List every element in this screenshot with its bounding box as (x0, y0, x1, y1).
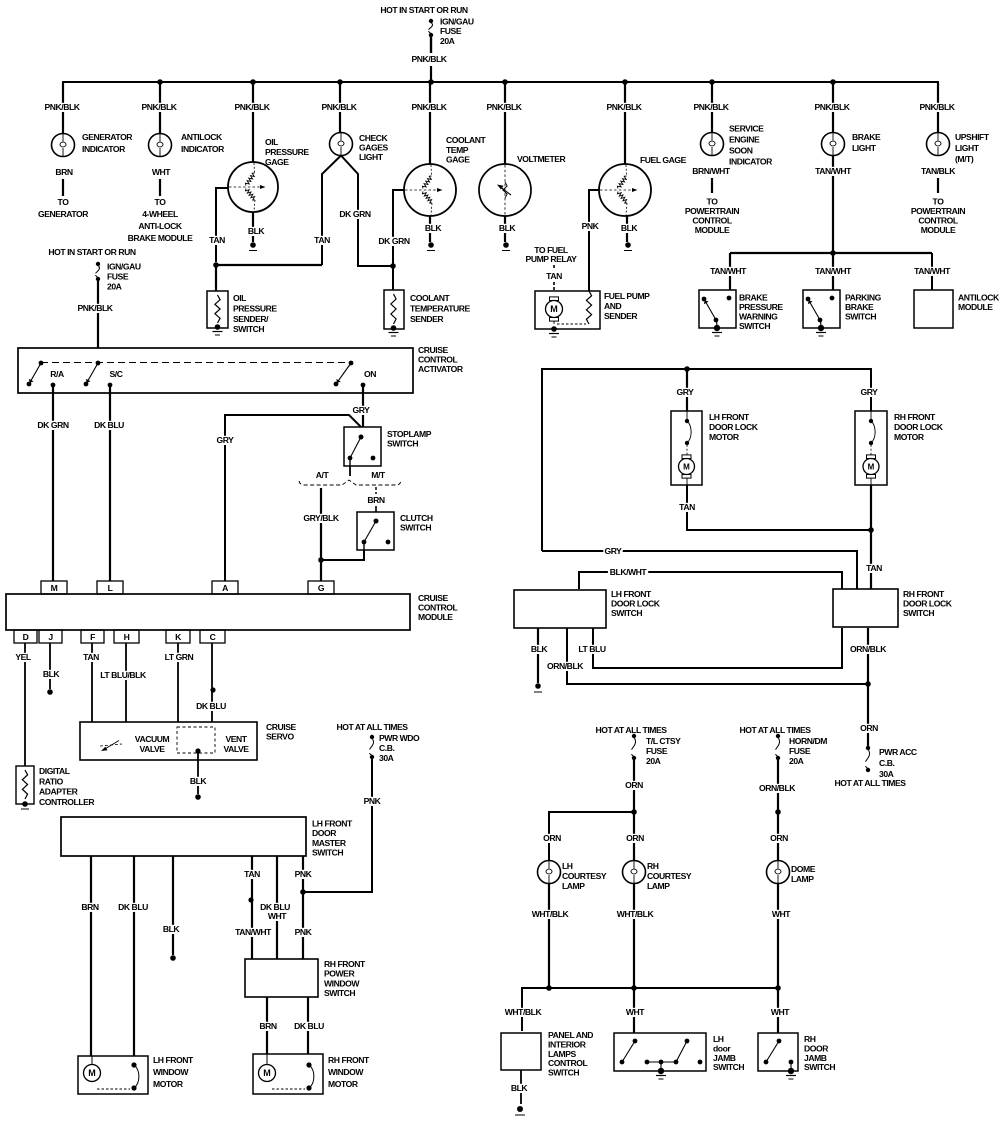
terminal A (212, 581, 238, 594)
svg-text:WINDOW: WINDOW (324, 978, 360, 988)
svg-text:J: J (48, 632, 53, 642)
wire LT BLU LH switch to RH switch (576, 628, 842, 668)
terminal C (200, 630, 225, 643)
svg-text:BRAKE MODULE: BRAKE MODULE (128, 233, 193, 243)
svg-text:LH FRONT: LH FRONT (153, 1055, 194, 1065)
svg-text:ORN: ORN (860, 723, 878, 733)
svg-text:VOLTMETER: VOLTMETER (517, 154, 567, 164)
svg-text:GENERATOR: GENERATOR (38, 209, 89, 219)
svg-text:CHECK: CHECK (359, 133, 389, 143)
svg-text:H: H (124, 632, 130, 642)
meter VOLTMETER (479, 154, 567, 216)
svg-text:DOOR LOCK: DOOR LOCK (903, 599, 953, 609)
wire TAN/WHT to parking brake switch (813, 253, 853, 290)
svg-text:BRAKE: BRAKE (845, 302, 874, 312)
fuse HORN/DM FUSE 20A (775, 734, 827, 766)
wire WHT/BLK rail to panel switch (503, 1007, 543, 1017)
svg-text:PRESSURE: PRESSURE (739, 302, 783, 312)
svg-text:OIL: OIL (265, 137, 278, 147)
svg-text:RH FRONT: RH FRONT (324, 959, 366, 969)
svg-text:HOT AT ALL TIMES: HOT AT ALL TIMES (336, 722, 408, 732)
wire BRN window switch to RH motor (258, 997, 277, 1054)
svg-text:WINDOW: WINDOW (153, 1067, 189, 1077)
svg-text:DOOR LOCK: DOOR LOCK (611, 599, 661, 609)
svg-text:COURTESY: COURTESY (562, 871, 607, 881)
wire TAN/WHT to antilock module (912, 253, 952, 290)
wire BLK/WHT LH switch to RH switch (579, 567, 842, 589)
svg-text:C: C (210, 632, 216, 642)
breaker PWR ACC C.B. 30A (865, 746, 916, 779)
switch LH door JAMB SWITCH (614, 1033, 744, 1079)
svg-text:PNK/BLK: PNK/BLK (919, 102, 955, 112)
svg-text:TAN/WHT: TAN/WHT (914, 266, 951, 276)
svg-text:TAN/BLK: TAN/BLK (921, 166, 956, 176)
svg-text:TAN: TAN (244, 869, 260, 879)
switch R/A contact (27, 361, 64, 388)
svg-text:PNK/BLK: PNK/BLK (141, 102, 177, 112)
wire BLK terminal J stub (41, 643, 60, 695)
svg-text:BLK: BLK (190, 776, 208, 786)
svg-text:AND: AND (604, 301, 622, 311)
svg-text:FUSE: FUSE (789, 746, 811, 756)
svg-text:30A: 30A (379, 753, 394, 763)
valve VENT VALVE (177, 727, 249, 754)
wire DK BLU window switch to RH motor (293, 997, 325, 1054)
svg-text:4-WHEEL: 4-WHEEL (142, 209, 178, 219)
svg-text:COOLANT: COOLANT (446, 135, 487, 145)
svg-text:PNK/BLK: PNK/BLK (234, 102, 270, 112)
svg-text:LAMP: LAMP (562, 881, 585, 891)
switch STOPLAMP SWITCH (344, 427, 432, 466)
wire DK GRN coolant gauge to sender (378, 190, 410, 290)
wire DK GRN R/A to terminal M (37, 387, 69, 581)
node oil sender junction (213, 262, 322, 291)
svg-text:ORN/BLK: ORN/BLK (759, 783, 796, 793)
svg-text:TAN/WHT: TAN/WHT (815, 166, 852, 176)
wire TAN to fuel pump relay (526, 245, 578, 291)
svg-text:INDICATOR: INDICATOR (82, 144, 126, 154)
wire TAN/WHT brake light down to switch rail (813, 155, 853, 253)
terminal J (39, 630, 62, 643)
gauge OIL PRESSURE GAGE (228, 137, 309, 212)
node brake switch rail (730, 250, 932, 256)
wire TAN/WHT to brake pressure warning switch (708, 253, 748, 290)
svg-text:ANTI-LOCK: ANTI-LOCK (138, 221, 182, 231)
switch S/C contact (84, 361, 123, 388)
svg-text:PARKING: PARKING (845, 293, 882, 303)
wire PNK fuel gauge to fuel pump sender (580, 190, 599, 291)
svg-text:GAGE: GAGE (446, 155, 470, 165)
svg-text:MOTOR: MOTOR (709, 432, 740, 442)
svg-text:VACUUM: VACUUM (135, 734, 170, 744)
svg-text:LH: LH (562, 861, 573, 871)
lamp LH COURTESY LAMP (538, 861, 607, 892)
wire WHT dome lamp to bus (770, 884, 791, 989)
svg-text:LH FRONT: LH FRONT (312, 819, 353, 829)
svg-text:HOT AT ALL TIMES: HOT AT ALL TIMES (834, 778, 906, 788)
wire GRY door lock top rail (542, 366, 871, 551)
svg-text:L: L (108, 583, 113, 593)
svg-text:MODULE: MODULE (958, 302, 993, 312)
lamp ANTILOCK INDICATOR (149, 132, 226, 157)
wire ORN/BLK LH switch to splice (546, 628, 868, 684)
wire GRY/BLK A/T branch to terminal G (302, 488, 340, 581)
svg-text:PNK/BLK: PNK/BLK (693, 102, 729, 112)
wire T/L CTSY feed header (595, 725, 667, 735)
box LH FRONT DOOR MASTER SWITCH (61, 817, 353, 858)
wire PNK/BLK fuse to bus (410, 36, 448, 82)
svg-text:SWITCH: SWITCH (400, 523, 431, 533)
svg-text:BLK: BLK (163, 924, 181, 934)
wire WHT/BLK RH courtesy lamp to bus (615, 884, 655, 989)
svg-text:SWITCH: SWITCH (713, 1062, 744, 1072)
svg-text:WARNING: WARNING (739, 312, 778, 322)
wire ORN fuse to courtesy lamp junction (624, 760, 643, 815)
svg-text:CRUISE: CRUISE (418, 593, 448, 603)
svg-text:PNK/BLK: PNK/BLK (814, 102, 850, 112)
svg-text:TAN: TAN (314, 235, 330, 245)
wire stoplamp to A/T-M/T brace (349, 466, 351, 476)
svg-text:GENERATOR: GENERATOR (82, 132, 133, 142)
lamp CHECK GAGES LIGHT (330, 133, 389, 163)
svg-text:SWITCH: SWITCH (387, 439, 418, 449)
svg-text:COOLANT: COOLANT (410, 293, 451, 303)
svg-text:GRY: GRY (677, 387, 695, 397)
svg-text:BLK: BLK (425, 223, 443, 233)
svg-text:CONTROL: CONTROL (418, 603, 458, 613)
svg-text:ACTIVATOR: ACTIVATOR (418, 364, 464, 374)
svg-text:GRY: GRY (217, 435, 235, 445)
svg-text:DK BLU: DK BLU (294, 1021, 324, 1031)
svg-text:ORN: ORN (626, 833, 644, 843)
svg-text:DOME: DOME (791, 864, 816, 874)
svg-text:SWITCH: SWITCH (739, 321, 770, 331)
svg-text:WHT/BLK: WHT/BLK (617, 909, 655, 919)
svg-text:LIGHT: LIGHT (852, 143, 877, 153)
svg-text:MODULE: MODULE (418, 612, 453, 622)
bus HOT IN START OR RUN rail (63, 82, 938, 84)
svg-text:20A: 20A (789, 756, 804, 766)
svg-text:POWER: POWER (324, 969, 355, 979)
svg-text:RH FRONT: RH FRONT (328, 1055, 370, 1065)
svg-text:M: M (868, 463, 875, 472)
box LH FRONT DOOR LOCK SWITCH (514, 589, 661, 628)
svg-text:ANTILOCK: ANTILOCK (181, 132, 223, 142)
svg-text:SWITCH: SWITCH (233, 324, 264, 334)
svg-text:BLK: BLK (621, 223, 639, 233)
svg-text:PNK: PNK (295, 869, 313, 879)
svg-text:ORN/BLK: ORN/BLK (547, 661, 584, 671)
wire BRN M/T branch to clutch switch (367, 487, 385, 512)
wire PWR ACC feed header (834, 778, 906, 788)
svg-text:TAN: TAN (546, 271, 562, 281)
svg-text:HOT IN START OR RUN: HOT IN START OR RUN (48, 247, 135, 257)
svg-text:R/A: R/A (50, 369, 64, 379)
junction dots on feed bus (157, 79, 836, 85)
svg-text:DIGITAL: DIGITAL (39, 766, 70, 776)
svg-text:MOTOR: MOTOR (328, 1079, 359, 1089)
svg-text:IGN/GAU: IGN/GAU (440, 17, 474, 27)
lamp UPSHIFT LIGHT (M/T) (927, 132, 990, 164)
svg-text:ORN: ORN (625, 780, 643, 790)
svg-text:TAN/WHT: TAN/WHT (235, 927, 272, 937)
wire PNK breaker to window switch junction (303, 759, 382, 892)
wire GRY to RH door lock motor (label) (859, 387, 878, 397)
svg-text:PNK/BLK: PNK/BLK (486, 102, 522, 112)
svg-text:S/C: S/C (110, 369, 123, 379)
wire BRN to generator (38, 167, 89, 219)
svg-text:DOOR LOCK: DOOR LOCK (894, 422, 944, 432)
wire LT GRN terminal K to cruise servo (163, 643, 195, 722)
wire PWR WDO feed header (336, 722, 408, 732)
svg-text:A/T: A/T (316, 470, 330, 480)
lamp SERVICE ENGINE SOON INDICATOR (701, 124, 774, 167)
svg-text:BLK: BLK (511, 1083, 529, 1093)
svg-text:TEMP: TEMP (446, 145, 469, 155)
svg-text:DOOR LOCK: DOOR LOCK (709, 422, 759, 432)
svg-text:TAN/WHT: TAN/WHT (710, 266, 747, 276)
gauge FUEL GAGE (599, 155, 687, 216)
svg-text:COURTESY: COURTESY (647, 871, 692, 881)
svg-text:HOT IN START OR RUN: HOT IN START OR RUN (380, 5, 467, 15)
wire BLK oil gauge ground (246, 212, 265, 251)
motor FUEL PUMP AND SENDER (535, 291, 650, 337)
svg-text:STOPLAMP: STOPLAMP (387, 429, 432, 439)
wire YEL terminal D to digital ratio adapter (13, 643, 32, 766)
wire DK BLU WHT master to RH window switch (259, 856, 291, 959)
box RH FRONT DOOR LOCK SWITCH (833, 589, 953, 627)
svg-text:GRY/BLK: GRY/BLK (303, 513, 339, 523)
wire HORN/DM feed header (739, 725, 811, 735)
svg-text:TAN: TAN (209, 235, 225, 245)
svg-text:LT BLU: LT BLU (578, 644, 605, 654)
lamp DOME LAMP (767, 861, 816, 885)
svg-text:DK GRN: DK GRN (378, 236, 409, 246)
svg-text:HOT AT ALL TIMES: HOT AT ALL TIMES (595, 725, 667, 735)
wire GRY stoplamp switch to terminal A (215, 415, 361, 581)
wire DK GRN check gages to coolant sender junction (339, 156, 393, 267)
lamp BRAKE LIGHT (822, 132, 882, 156)
svg-text:TAN: TAN (866, 563, 882, 573)
svg-text:G: G (318, 583, 325, 593)
svg-text:PNK/BLK: PNK/BLK (77, 303, 113, 313)
svg-text:SWITCH: SWITCH (903, 608, 934, 618)
wire TAN oil gauge to sender (207, 188, 228, 262)
gauge COOLANT TEMP GAGE (404, 135, 487, 216)
svg-text:MASTER: MASTER (312, 838, 347, 848)
svg-text:MODULE: MODULE (695, 225, 730, 235)
terminal L (97, 581, 123, 594)
svg-text:RH FRONT: RH FRONT (903, 589, 945, 599)
svg-text:M: M (683, 463, 690, 472)
svg-text:PNK: PNK (364, 796, 382, 806)
svg-text:GRY: GRY (861, 387, 879, 397)
svg-text:GRY: GRY (353, 405, 371, 415)
wire TAN check gages to oil sender junction (312, 156, 341, 266)
svg-text:FUSE: FUSE (440, 26, 462, 36)
box ANTILOCK MODULE (914, 290, 1000, 328)
terminal G (308, 581, 334, 594)
svg-text:M: M (263, 1068, 271, 1078)
wire GRY ON to stoplamp switch (351, 387, 370, 427)
svg-text:MOTOR: MOTOR (153, 1079, 184, 1089)
svg-text:20A: 20A (440, 36, 455, 46)
svg-text:TAN: TAN (83, 652, 99, 662)
svg-text:GRY: GRY (605, 546, 623, 556)
svg-text:SENDER/: SENDER/ (233, 314, 269, 324)
svg-text:20A: 20A (107, 282, 122, 292)
breaker PWR WDO C.B. 30A (369, 733, 420, 763)
resistor OIL PRESSURE SENDER/SWITCH (207, 291, 277, 335)
terminal M (41, 581, 67, 594)
svg-text:DK BLU: DK BLU (94, 420, 124, 430)
svg-text:OIL: OIL (233, 293, 246, 303)
svg-text:ANTILOCK: ANTILOCK (958, 293, 1000, 303)
wire BRN master switch to LH window motor (80, 856, 99, 1056)
wire BLK coolant gauge ground (423, 216, 442, 251)
terminal F (81, 630, 104, 643)
svg-text:BRN/WHT: BRN/WHT (692, 166, 731, 176)
svg-text:WHT: WHT (268, 911, 287, 921)
svg-text:SWITCH: SWITCH (804, 1062, 835, 1072)
svg-text:CONTROL: CONTROL (418, 355, 458, 365)
svg-text:ORN/BLK: ORN/BLK (850, 644, 887, 654)
svg-text:RATIO: RATIO (39, 776, 64, 786)
lamp GENERATOR INDICATOR (52, 132, 134, 157)
svg-text:INDICATOR: INDICATOR (181, 144, 225, 154)
motor LH FRONT WINDOW MOTOR (78, 1055, 194, 1094)
svg-text:LIGHT: LIGHT (955, 143, 980, 153)
wire ORN to RH courtesy lamp (625, 812, 644, 861)
svg-text:PWR ACC: PWR ACC (879, 747, 917, 757)
valve VACUUM VALVE (100, 734, 169, 754)
svg-text:SWITCH: SWITCH (324, 988, 355, 998)
svg-text:TO: TO (933, 197, 945, 207)
svg-text:CONTROL: CONTROL (918, 216, 958, 226)
box CRUISE CONTROL ACTIVATOR (18, 345, 464, 393)
wire LT BLU/BLK terminal H to cruise servo (97, 643, 148, 722)
fuse IGN/GAU 20A (top) (428, 17, 473, 46)
svg-text:DK BLU: DK BLU (196, 701, 226, 711)
svg-text:F: F (90, 632, 95, 642)
wire TAN LH door lock motor to junction (677, 485, 871, 530)
svg-text:HOT AT ALL TIMES: HOT AT ALL TIMES (739, 725, 811, 735)
wire ORN splice to PWR ACC breaker (859, 684, 878, 748)
bus courtesy lamp ground rail (522, 985, 781, 1031)
svg-text:POWERTRAIN: POWERTRAIN (685, 206, 739, 216)
wire WHT rail to RH door jamb switch (769, 988, 790, 1033)
svg-text:ADAPTER: ADAPTER (39, 787, 79, 797)
wire WHT/BLK LH courtesy lamp to bus (530, 884, 570, 989)
svg-text:PNK: PNK (582, 221, 600, 231)
svg-text:BRAKE: BRAKE (739, 293, 768, 303)
svg-text:GAGES: GAGES (359, 143, 389, 153)
wire IGN/GAU fuse feed header (380, 5, 467, 15)
svg-text:BRN: BRN (259, 1021, 277, 1031)
svg-text:WHT: WHT (626, 1007, 645, 1017)
svg-text:HORN/DM: HORN/DM (789, 736, 827, 746)
svg-text:TAN: TAN (679, 502, 695, 512)
box CRUISE SERVO (80, 722, 296, 760)
svg-text:DK BLU: DK BLU (118, 902, 148, 912)
svg-text:CRUISE: CRUISE (266, 722, 296, 732)
svg-text:LIGHT: LIGHT (359, 152, 384, 162)
svg-text:SWITCH: SWITCH (312, 848, 343, 858)
svg-text:C.B.: C.B. (379, 743, 394, 753)
wire GRY to LH door lock motor (675, 369, 694, 411)
svg-text:DK GRN: DK GRN (37, 420, 68, 430)
svg-text:WHT/BLK: WHT/BLK (505, 1007, 543, 1017)
box CRUISE CONTROL MODULE (6, 593, 458, 630)
lamp RH COURTESY LAMP (623, 861, 692, 892)
svg-text:LH FRONT: LH FRONT (611, 589, 652, 599)
svg-text:FUEL PUMP: FUEL PUMP (604, 291, 650, 301)
wire PNK/BLK branch drops with labels (43, 82, 956, 164)
wire GRY rail to door lock switches (542, 546, 857, 589)
svg-text:UPSHIFT: UPSHIFT (955, 132, 990, 142)
switch ON contact (334, 361, 377, 388)
svg-text:CLUTCH: CLUTCH (400, 513, 433, 523)
wire BLK voltmeter ground (497, 216, 516, 251)
svg-text:SERVO: SERVO (266, 732, 294, 742)
svg-text:ON: ON (364, 369, 376, 379)
svg-text:TO: TO (58, 197, 70, 207)
svg-text:BLK: BLK (499, 223, 517, 233)
svg-text:D: D (23, 632, 29, 642)
wire clutch switch to G junction (321, 550, 364, 560)
motor LH FRONT DOOR LOCK MOTOR (671, 411, 759, 485)
svg-text:FUEL GAGE: FUEL GAGE (640, 155, 687, 165)
svg-text:IGN/GAU: IGN/GAU (107, 262, 141, 272)
svg-text:FUSE: FUSE (107, 272, 129, 282)
wire PNK master to RH window switch (293, 856, 312, 959)
wire dashed common rail in activator (41, 362, 351, 364)
switch RH DOOR JAMB SWITCH (758, 1033, 835, 1079)
switch PARKING BRAKE SWITCH (803, 290, 882, 336)
svg-text:MODULE: MODULE (921, 225, 956, 235)
svg-text:POWERTRAIN: POWERTRAIN (911, 206, 965, 216)
svg-text:SWITCH: SWITCH (845, 312, 876, 322)
svg-text:CONTROLLER: CONTROLLER (39, 797, 95, 807)
svg-text:PNK/BLK: PNK/BLK (411, 54, 447, 64)
svg-text:ORN: ORN (770, 833, 788, 843)
svg-text:WHT/BLK: WHT/BLK (532, 909, 570, 919)
svg-text:PRESSURE: PRESSURE (233, 303, 277, 313)
svg-text:DK GRN: DK GRN (339, 209, 370, 219)
svg-text:LAMP: LAMP (647, 881, 670, 891)
node coolant sender junction (390, 263, 396, 269)
svg-text:SWITCH: SWITCH (611, 608, 642, 618)
svg-text:CONTROL: CONTROL (692, 216, 732, 226)
svg-text:PNK: PNK (295, 927, 313, 937)
svg-text:LT GRN: LT GRN (165, 652, 194, 662)
svg-text:RH FRONT: RH FRONT (894, 412, 936, 422)
svg-text:(M/T): (M/T) (955, 154, 974, 164)
wire DK BLU terminal C to vent valve (195, 643, 227, 722)
svg-text:BLK: BLK (43, 669, 61, 679)
svg-text:BRAKE: BRAKE (852, 132, 881, 142)
svg-text:LAMP: LAMP (791, 874, 814, 884)
svg-text:M/T: M/T (371, 470, 386, 480)
svg-text:BLK/WHT: BLK/WHT (610, 567, 648, 577)
node A/T M/T brace (299, 470, 401, 485)
wire BLK cruise servo ground (188, 751, 207, 800)
svg-text:PNK/BLK: PNK/BLK (411, 102, 447, 112)
svg-text:LT BLU/BLK: LT BLU/BLK (100, 670, 147, 680)
wire DK BLU master switch to LH window motor (117, 856, 149, 1056)
svg-text:PUMP RELAY: PUMP RELAY (526, 254, 578, 264)
svg-text:T/L CTSY: T/L CTSY (646, 736, 681, 746)
